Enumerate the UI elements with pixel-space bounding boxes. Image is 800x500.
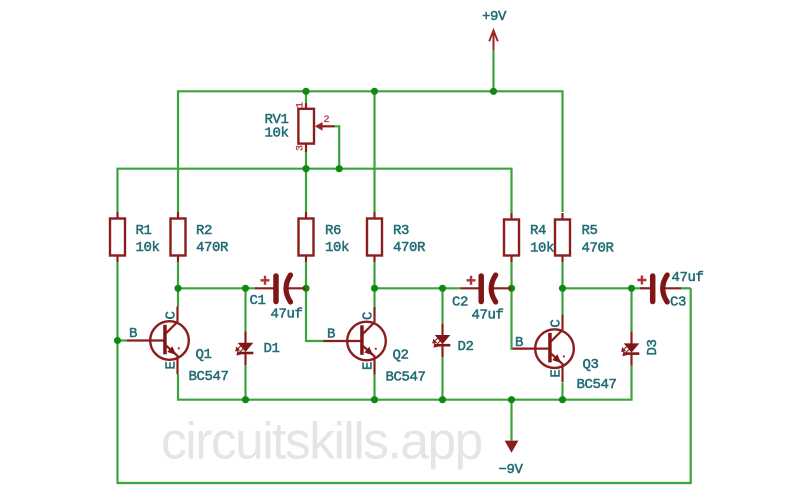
svg-text:2: 2 [324, 115, 330, 126]
svg-text:R4: R4 [530, 223, 546, 239]
LED D1 [236, 331, 280, 365]
wire RV1 pin1 to top rail [305, 91, 307, 103]
svg-text:BC547: BC547 [577, 377, 617, 393]
svg-text:BC547: BC547 [386, 370, 426, 386]
svg-text:C1: C1 [250, 293, 266, 309]
capacitor C2 [452, 275, 512, 324]
svg-text:Q3: Q3 [583, 357, 599, 373]
resistor R6 [299, 212, 350, 262]
svg-text:+9V: +9V [482, 9, 507, 25]
Q3 emitter arrowhead [552, 354, 561, 363]
svg-text:Q2: Q2 [393, 348, 409, 364]
wire second rail from R1 top to R4 top [118, 169, 512, 213]
junction RV1 pin1 / top rail [302, 88, 309, 95]
wire Q1 base tap [118, 339, 128, 341]
svg-text:470R: 470R [196, 240, 229, 256]
wire RV1 pin3 down to R6 top [305, 152, 307, 212]
wire R5 bottom column [561, 262, 563, 288]
C2 plus mark [467, 276, 476, 285]
svg-text:C: C [549, 320, 565, 328]
junction node Q1C at D1 [242, 285, 249, 292]
wire RV1 wiper to second rail [334, 126, 339, 168]
potentiometer RV1 [265, 102, 335, 152]
resistor R3 [367, 212, 426, 262]
svg-text:C2: C2 [452, 295, 468, 311]
svg-text:3: 3 [296, 145, 307, 151]
junction node Q2C at R3 [371, 285, 378, 292]
wire Q3 emitter to bottom rail [561, 383, 563, 400]
svg-text:10k: 10k [136, 240, 160, 256]
wire R4 bottom column [510, 262, 512, 288]
svg-text:47uf: 47uf [271, 307, 303, 323]
junction node Q1C at R2 [174, 285, 181, 292]
svg-text:BC547: BC547 [189, 369, 229, 385]
svg-text:−9V: −9V [499, 462, 524, 478]
junction RV1 wiper / second rail [336, 165, 343, 172]
svg-text:10k: 10k [325, 240, 349, 256]
RV1 wiper pin 2 [315, 122, 323, 131]
svg-text:E: E [361, 362, 377, 370]
svg-text:B: B [515, 335, 523, 351]
junction +9V / top rail [490, 88, 497, 95]
resistor R5 [555, 213, 615, 262]
svg-text:10k: 10k [530, 241, 554, 257]
svg-text:E: E [164, 361, 180, 369]
wire C3 right lead to corner [680, 287, 691, 289]
wire node Q1C horizontal to C1 and D1 [178, 287, 257, 289]
svg-text:B: B [129, 326, 137, 342]
svg-text:B: B [327, 327, 335, 343]
junction D1 / bottom rail [242, 396, 249, 403]
svg-text:C: C [164, 311, 180, 319]
svg-text:circuitskills.app: circuitskills.app [161, 412, 482, 470]
junction node Q3C at D3 [628, 285, 635, 292]
junction Q2 emitter / bottom rail [371, 396, 378, 403]
wire D1 cathode to bottom rail [244, 365, 246, 400]
wire -9V stub [510, 400, 512, 441]
D3 light arrows [622, 346, 629, 356]
junction -9V / bottom rail [508, 396, 515, 403]
D2 light arrows [433, 337, 440, 347]
C1 plus mark [261, 276, 270, 285]
wire left column R1 bottom to bottom loop to C3 right plate [118, 262, 691, 483]
wire R4 node down to Q3 base [512, 288, 514, 348]
junction R3 / top rail [371, 88, 378, 95]
capacitor C1 [250, 275, 307, 323]
resistor R2 [171, 212, 230, 262]
svg-text:C: C [361, 312, 377, 320]
wire node Q2C horizontal to C2 and D2 [375, 287, 462, 289]
wire D2 cathode to bottom rail [441, 357, 443, 400]
svg-text:R5: R5 [582, 223, 598, 239]
wire node Q3C horizontal to C3 and D3 [563, 287, 642, 289]
svg-text:R2: R2 [196, 223, 212, 239]
C3 plus mark [637, 276, 646, 285]
junction RV1 pin3 / second rail [302, 165, 309, 172]
resistor R4 [504, 213, 554, 262]
junction Q3 emitter / bottom rail [559, 396, 566, 403]
wire Q2 collector stub [373, 288, 375, 307]
transistor Q3 [513, 315, 617, 393]
junction D2 / bottom rail [439, 396, 446, 403]
junction node Q2C at D2 [439, 285, 446, 292]
transistor Q1 [127, 307, 229, 386]
wire D3 anode column [630, 288, 632, 331]
LED D2 [433, 324, 474, 358]
resistor R1 [110, 212, 160, 262]
svg-text:E: E [549, 370, 565, 378]
Q2 emitter arrowhead [364, 347, 373, 356]
junction node Q3C at R5 [559, 285, 566, 292]
wire R3 top to top rail [373, 91, 375, 212]
svg-text:10k: 10k [265, 126, 289, 142]
svg-text:470R: 470R [393, 240, 426, 256]
wire Q3 collector stub [561, 288, 563, 314]
wire R6 bottom column [305, 262, 307, 288]
wire D2 anode column [441, 288, 443, 323]
junction node Q3B at R4 [508, 285, 515, 292]
svg-text:C3: C3 [670, 295, 686, 311]
svg-text:47uf: 47uf [672, 270, 704, 286]
svg-text:D2: D2 [458, 339, 474, 355]
wire R6 node down to Q2 base [306, 288, 324, 341]
svg-text:Q1: Q1 [196, 347, 212, 363]
power +9V [482, 9, 507, 50]
svg-text:1: 1 [296, 102, 307, 108]
wire R3 bottom column [373, 262, 375, 288]
wire +9V stem [492, 50, 494, 91]
Q1 emitter arrowhead [167, 346, 176, 355]
wire D1 anode column [244, 288, 246, 331]
LED D3 [622, 331, 661, 365]
svg-text:R3: R3 [393, 223, 409, 239]
capacitor C3 [637, 270, 703, 311]
D1 light arrows [236, 345, 243, 355]
junction Q1 base / left column [114, 337, 121, 344]
svg-text:470R: 470R [582, 241, 615, 257]
wire Q2 emitter to bottom rail [373, 375, 375, 400]
svg-text:R1: R1 [136, 223, 152, 239]
power -9V [499, 441, 524, 478]
wire R2 bottom to Q1 collector node [177, 262, 179, 307]
svg-text:47uf: 47uf [472, 308, 504, 324]
svg-text:D1: D1 [264, 341, 280, 357]
wire Q1 emitter to bottom rail to D3 bottom [178, 366, 632, 400]
junction node Q2B at R6 [302, 285, 309, 292]
transistor Q2 [324, 307, 426, 386]
wire top +9V rail from R2 top to R5 top [178, 91, 563, 212]
svg-text:D3: D3 [645, 339, 661, 355]
svg-text:R6: R6 [325, 223, 341, 239]
